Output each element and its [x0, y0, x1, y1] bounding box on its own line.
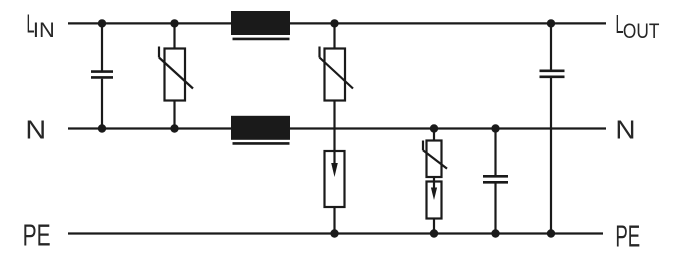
junction L/RV2 — [330, 19, 338, 27]
wire C1 lower lead — [101, 79, 103, 129]
svg-text:N: N — [615, 117, 635, 145]
node L_IN label — [27, 9, 55, 42]
wire C3 lower lead (crosses N, no junction) — [550, 78, 552, 234]
wire F1 lower lead — [333, 207, 335, 234]
svg-text:OUT: OUT — [623, 19, 660, 43]
junction N/RV1 — [170, 124, 178, 132]
wire RV1 lower lead — [173, 101, 175, 129]
varistor RV1 (L-N) — [159, 47, 193, 101]
svg-text:PE: PE — [23, 219, 51, 253]
junction N/C1 — [98, 124, 106, 132]
svg-text:PE: PE — [615, 220, 640, 254]
spark gap F1 (to PE) — [325, 151, 345, 207]
wire N line — [68, 127, 606, 129]
node L_OUT label — [616, 9, 660, 43]
wire RV3 upper lead — [433, 129, 435, 141]
junction PE/F1 — [330, 229, 338, 237]
inductor L2 (choke in N line) — [231, 116, 290, 144]
svg-text:N: N — [25, 116, 46, 144]
junction PE/C3 — [547, 229, 555, 237]
varistor RV2 (L to spark gap) — [320, 47, 354, 101]
junction L/RV1 — [170, 19, 178, 27]
capacitor C3 (L-PE Y-capacitor) — [540, 71, 565, 77]
wire RV2 to F1 (crosses N, no junction) — [333, 101, 335, 152]
junction PE/F2 — [430, 229, 438, 237]
wire L line (L_IN to L_OUT) — [68, 22, 606, 24]
wire PE line — [68, 232, 603, 234]
spark gap F2 (series with RV3) — [427, 182, 442, 219]
wire F2 lower lead — [433, 219, 435, 234]
inductor L1 (choke in L line) — [231, 11, 290, 39]
wire C2 lower lead — [494, 184, 496, 234]
wire C3 upper lead — [550, 23, 552, 69]
junction PE/C2 — [491, 229, 499, 237]
junction L/C1 — [98, 19, 106, 27]
wire RV2 upper lead — [333, 23, 335, 48]
svg-text:IN: IN — [33, 18, 55, 42]
capacitor C2 (N-PE Y-capacitor) — [483, 176, 508, 182]
wire C1 upper lead — [101, 23, 103, 70]
wire RV1 upper lead — [173, 23, 175, 48]
varistor RV3 (N-PE, series with F2) — [423, 141, 447, 178]
capacitor C1 (L-N X-capacitor) — [91, 72, 113, 78]
junction N/RV3 — [430, 124, 438, 132]
junction L/C3 — [547, 19, 555, 27]
wire C2 upper lead — [494, 129, 496, 176]
wire RV3 to F2 — [433, 177, 435, 182]
junction N/C2 — [491, 124, 499, 132]
